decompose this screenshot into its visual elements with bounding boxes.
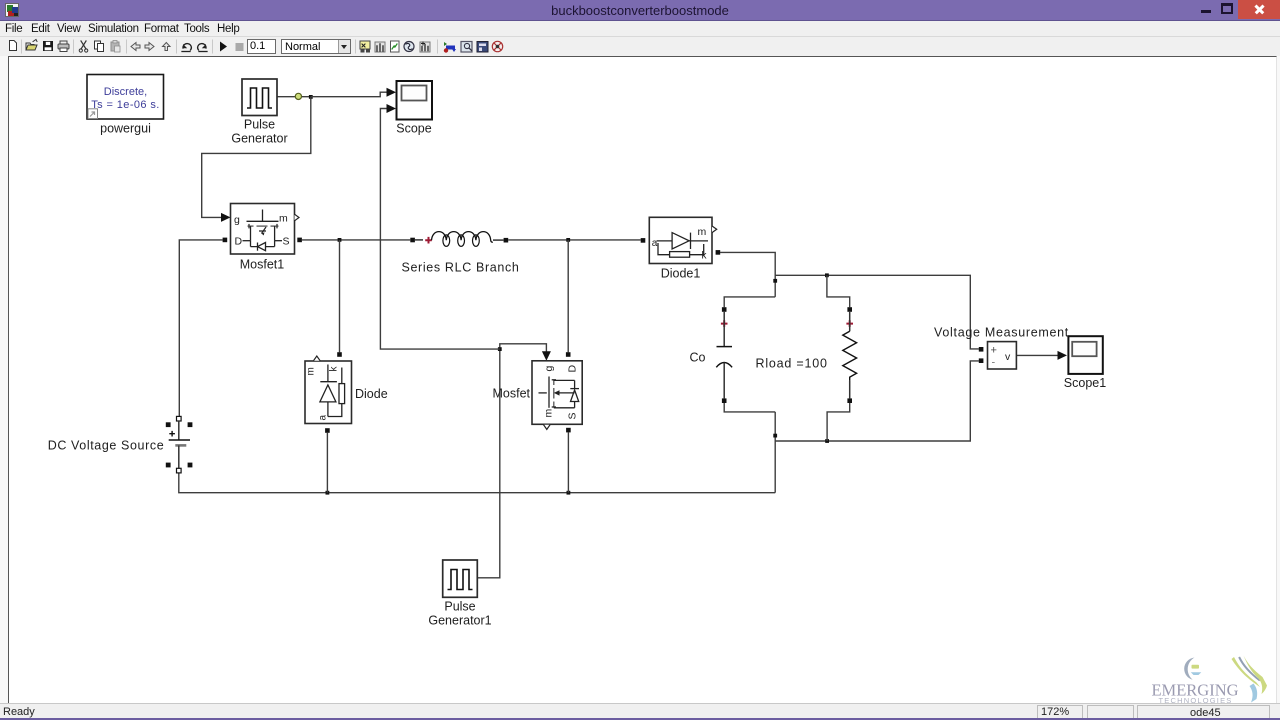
svg-text:Scope: Scope	[396, 122, 431, 136]
arrowhead Scope input 2	[387, 104, 397, 113]
selection handles	[166, 422, 171, 427]
wire bottom bus node D to Voltage Measurement -	[775, 361, 979, 441]
resistor R1 Rload	[843, 307, 857, 403]
arrowhead Mosfet1 gate	[221, 213, 231, 222]
wire Rload - to node F	[827, 403, 850, 441]
node B junction dot	[338, 238, 342, 242]
redo	[198, 44, 206, 50]
wire Co - to node D	[724, 403, 775, 412]
pin S port square	[297, 238, 302, 243]
mosfet Q2 Mosfet (rotated)	[532, 361, 582, 430]
arrowhead Scope1 input	[1058, 351, 1068, 360]
pin - port square	[979, 358, 984, 363]
diode D2 Diode1	[649, 217, 716, 263]
wire Pulse Generator output to node A	[277, 96, 311, 98]
pin + port square	[979, 347, 984, 352]
svg-text:D: D	[567, 365, 579, 373]
wire node D lower vertical to ground bus	[774, 412, 776, 493]
inductor L1 Series RLC Branch	[410, 232, 508, 247]
arrowhead Scope input 1	[387, 88, 397, 97]
wire node E to Rload +	[827, 275, 850, 307]
svg-text:Pulse: Pulse	[244, 118, 275, 132]
wire node C down to Mosfet D	[567, 240, 569, 352]
wire Mosfet1 S to Series RLC Branch (node B)	[302, 239, 410, 241]
svg-text:Series RLC Branch: Series RLC Branch	[401, 261, 519, 275]
node D junction dot	[773, 279, 777, 283]
svg-text:Diode: Diode	[355, 387, 388, 401]
node E junction dot	[825, 273, 829, 277]
node I junction dot	[498, 347, 502, 351]
play	[220, 42, 227, 52]
node H junction dot	[567, 491, 571, 495]
wire Pulse Generator1 to Mosfet gate	[477, 344, 546, 578]
wire top bus node D to Voltage Measurement +	[775, 275, 979, 349]
svg-text:m: m	[698, 226, 707, 238]
svg-text:Discrete,: Discrete,	[104, 86, 147, 98]
pin S port square	[566, 428, 571, 433]
new	[10, 41, 17, 51]
wire Diode1 k to node D vertical drop	[720, 252, 775, 297]
pin a port square	[641, 238, 646, 243]
node A junction dot	[309, 95, 313, 99]
undo	[183, 44, 191, 50]
wire Series RLC Branch to Diode1 a (node C)	[508, 239, 641, 241]
svg-text:Scope1: Scope1	[1064, 376, 1106, 390]
node A selected port marker	[295, 93, 301, 99]
pin D port square	[566, 352, 571, 357]
svg-text:m: m	[279, 213, 288, 225]
print	[58, 44, 69, 49]
mosfet Q1	[231, 204, 300, 255]
svg-text:g: g	[543, 366, 555, 372]
svg-text:m: m	[543, 409, 555, 418]
pin m arrow stub	[314, 356, 321, 361]
svg-text:Generator: Generator	[231, 132, 287, 146]
pin k port square	[337, 352, 342, 357]
wire node I to Scope input 2	[380, 109, 499, 350]
scope SC1	[397, 81, 433, 120]
pin D port square	[223, 238, 228, 243]
icon group 2	[444, 42, 447, 46]
pulse generator P1	[242, 79, 277, 116]
wire DC Voltage Source + to Mosfet1 D	[179, 240, 222, 417]
svg-text:D: D	[235, 236, 243, 248]
svg-text:Diode1: Diode1	[661, 267, 701, 281]
pulse generator P2 Pulse Generator1	[443, 560, 478, 597]
node G junction dot	[326, 491, 330, 495]
svg-text:powergui: powergui	[100, 122, 151, 136]
svg-text:Mosfet1: Mosfet1	[240, 258, 285, 272]
wire node D to Co +	[724, 297, 775, 307]
capacitor C1 Co	[716, 307, 732, 403]
svg-text:-: -	[992, 357, 996, 369]
save	[43, 41, 53, 51]
stop disabled	[236, 43, 244, 51]
svg-text:Voltage Measurement: Voltage Measurement	[934, 326, 1069, 340]
svg-text:Co: Co	[690, 351, 706, 365]
paste (disabled)	[111, 42, 119, 51]
pin m arrow stub	[712, 226, 717, 233]
svg-text:Ts = 1e-06 s.: Ts = 1e-06 s.	[91, 99, 159, 111]
pin a port square	[325, 428, 330, 433]
scope SC2 Scope1	[1068, 336, 1102, 374]
svg-text:m: m	[306, 367, 317, 375]
node F junction dot	[825, 439, 829, 443]
wire node B down to Diode k	[339, 240, 341, 352]
wire Mosfet S to ground bus	[567, 432, 569, 492]
pin k port square	[716, 250, 721, 255]
svg-text:Generator1: Generator1	[428, 614, 491, 628]
powergui U1	[87, 75, 164, 120]
svg-text:+: +	[991, 345, 997, 357]
up arrow	[163, 43, 171, 51]
copy	[95, 41, 101, 49]
back arrow	[131, 43, 140, 51]
svg-text:v: v	[1005, 351, 1011, 363]
battery V1 DC Voltage Source	[166, 416, 193, 473]
svg-text:Mosfet: Mosfet	[492, 387, 530, 401]
pin g arrow stub	[295, 214, 300, 221]
svg-text:Pulse: Pulse	[444, 600, 475, 614]
diode D1 Diode (rotated)	[305, 356, 352, 424]
svg-text:S: S	[283, 236, 290, 248]
svg-text:Rload =100: Rload =100	[756, 357, 828, 371]
forward arrow	[145, 43, 154, 51]
voltmeter VM1 Voltage Measurement	[988, 342, 1017, 369]
wire node A to Mosfet1 gate	[202, 97, 311, 218]
svg-text:S: S	[567, 412, 579, 419]
arrowhead Mosfet gate	[542, 351, 551, 361]
open	[26, 45, 37, 50]
node D lower junction dot	[773, 434, 777, 438]
wire Voltage Measurement v to Scope1	[1016, 354, 1058, 356]
cut	[81, 41, 86, 49]
svg-text:a: a	[318, 415, 329, 421]
wire node A to Scope input 1	[311, 92, 388, 97]
wire DC Voltage Source - to ground bus	[179, 473, 775, 493]
svg-text:DC Voltage Source: DC Voltage Source	[48, 439, 165, 453]
svg-text:g: g	[234, 214, 240, 226]
wire Diode a to ground bus	[326, 433, 328, 493]
pin m arrow stub	[544, 425, 551, 430]
svg-text:a: a	[652, 238, 658, 249]
icon group 1	[360, 41, 370, 49]
node C junction dot	[566, 238, 570, 242]
